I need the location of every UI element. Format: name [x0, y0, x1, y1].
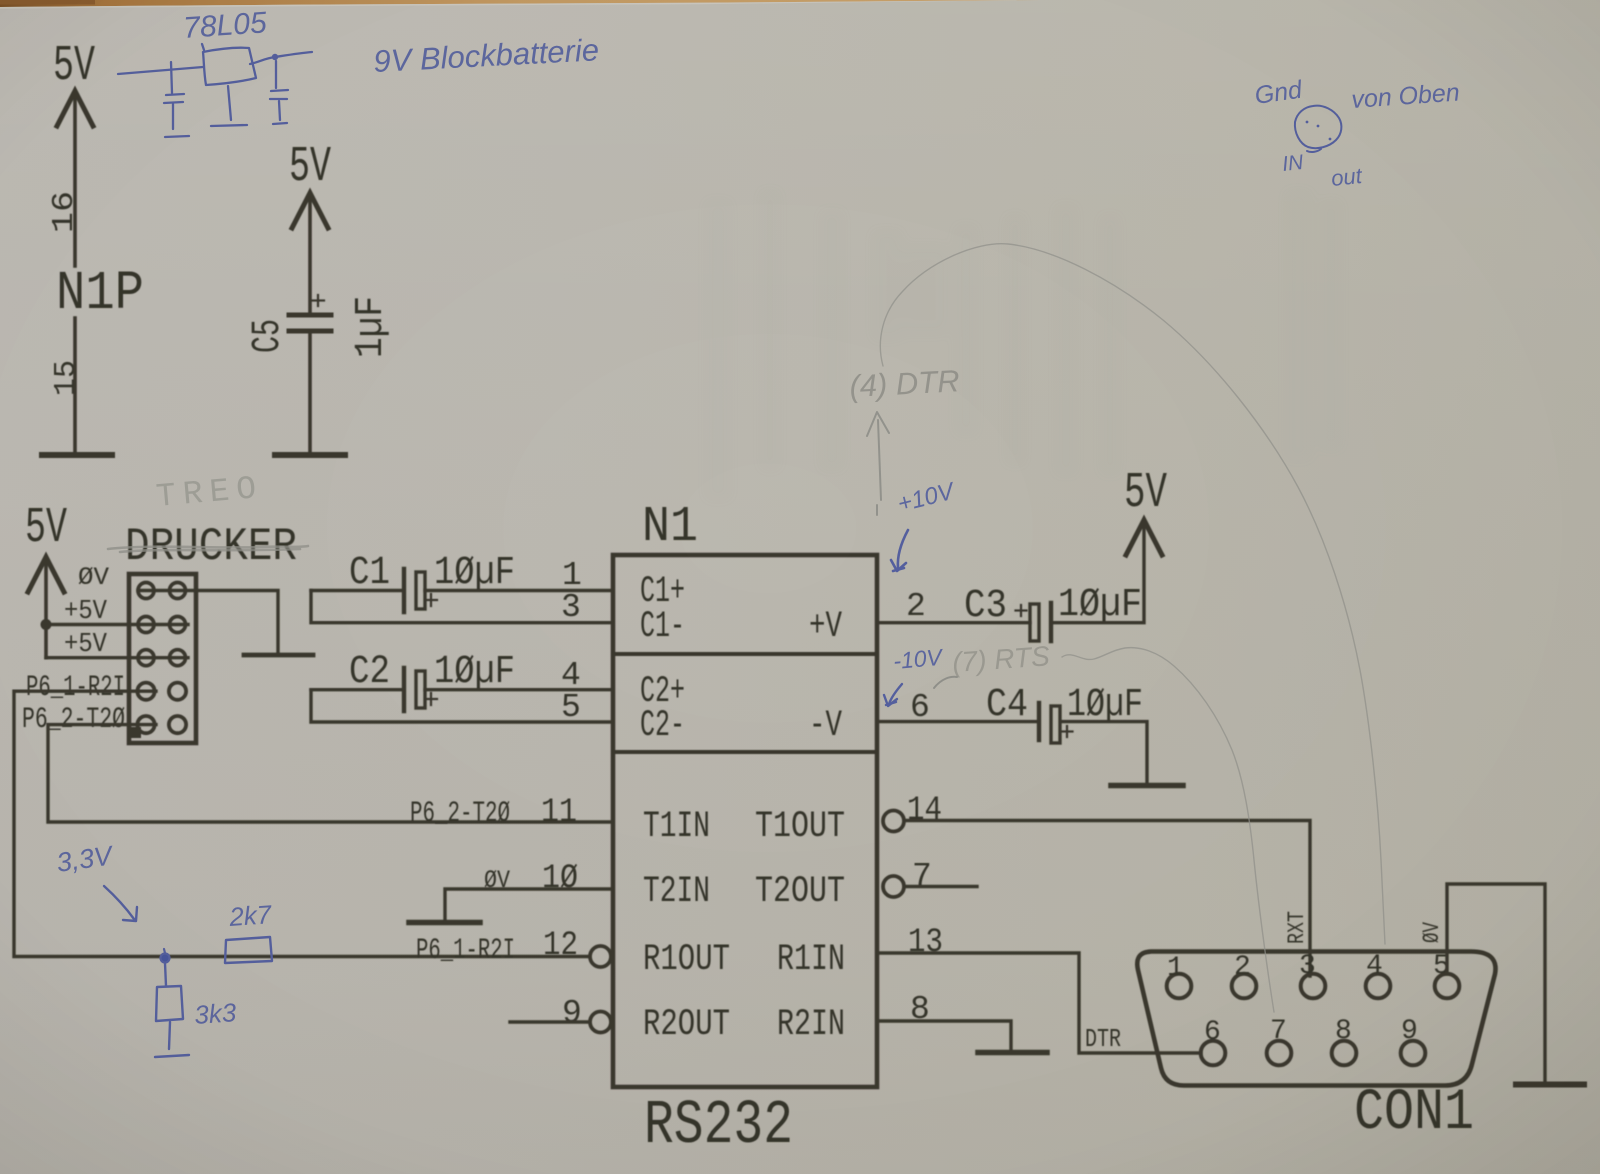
pin name R2OUT	[643, 1004, 730, 1046]
wire C5 to ground	[308, 333, 312, 453]
net label RXT	[1284, 911, 1310, 944]
value 10µF (C1)	[434, 551, 515, 596]
net label P6_2-T20 at pin11	[410, 797, 510, 831]
resistor 3k3 value (handwritten)	[193, 997, 237, 1030]
annotation IN	[1281, 151, 1305, 176]
wire 78L05 gnd pin	[211, 86, 247, 126]
wire pin2 to C3	[877, 621, 1030, 624]
pin name C1+	[640, 571, 685, 613]
pin name -V	[809, 705, 842, 747]
pin number 1	[562, 557, 582, 594]
value 10µF (C2)	[434, 650, 515, 695]
regulator 78L05 body (hand-drawn)	[202, 44, 256, 85]
CON1 pin 3	[1299, 951, 1325, 998]
connector pins row3	[138, 650, 186, 666]
net label +5V	[64, 630, 108, 660]
annotation 3,3V	[55, 840, 117, 878]
wire C3 to 5V	[1052, 524, 1144, 623]
ground (C5)	[275, 452, 345, 458]
capacitor input (hand-drawn)	[164, 62, 189, 137]
net label 0V (CON1 pin5)	[1419, 922, 1445, 943]
wire pin6 to C4	[877, 720, 1039, 723]
pin name T2IN	[643, 871, 710, 913]
CON1 pin 8	[1332, 1016, 1357, 1065]
pin number 14	[907, 792, 942, 830]
net label +5V	[64, 597, 108, 627]
wood table strip top edge	[0, 0, 1045, 9]
CON1 pin 6	[1201, 1017, 1226, 1065]
pencil arc B (RTS squiggle to CON1 pin7)	[1062, 648, 1274, 1012]
junction dot	[41, 619, 52, 630]
wire pin14 to CON1 pin3 (RXT)	[905, 821, 1310, 977]
pin name +V	[809, 606, 842, 648]
wire pin8 to ground	[877, 1021, 1011, 1050]
wire row3 +5V	[46, 656, 188, 659]
wire N1P pin15 down	[73, 318, 77, 453]
net label DTR	[1085, 1024, 1121, 1054]
pin number 7	[912, 858, 932, 895]
pin number 4	[561, 657, 581, 694]
wire pin10 to ground	[445, 889, 611, 920]
wire C2 loop pins 4,5	[311, 690, 611, 722]
pin name C2-	[640, 705, 685, 747]
pin name T1OUT	[755, 806, 845, 848]
wire pin13 to CON1 pin6 (DTR)	[877, 953, 1201, 1053]
power symbol 5V (C5)	[289, 139, 331, 311]
pin number 15	[49, 360, 84, 396]
ground (C4)	[1111, 783, 1183, 789]
wire 78L05 input	[118, 67, 203, 74]
resistor 3k3 (hand-drawn)	[156, 986, 183, 1021]
pin number 13	[908, 924, 943, 962]
pin 9 inversion circle	[590, 1012, 611, 1033]
connector DRUCKER label	[125, 521, 297, 573]
wire row1 to ground	[138, 591, 278, 653]
net label P6_1-R2I	[26, 671, 125, 705]
pin name T2OUT	[755, 871, 845, 913]
wire C1 loop pins 1,3	[311, 591, 611, 623]
HANDWRITTEN BLUE INK	[55, 6, 1461, 1057]
capacitor C1	[404, 569, 437, 612]
node N1P	[56, 262, 144, 325]
connector pins row5	[137, 716, 186, 733]
resistor 2k7 (hand-drawn)	[225, 937, 272, 963]
capacitor output (hand-drawn)	[270, 61, 288, 124]
pencil arc A (big sweep to CON1 pin4)	[880, 244, 1385, 944]
wire P6_2-T20 to N1 pin11	[48, 725, 611, 822]
pin name C1-	[640, 606, 685, 648]
capacitor C4	[1039, 703, 1073, 743]
wire 3k3 to ground	[169, 1022, 170, 1049]
annotation von oben	[1350, 78, 1460, 113]
pin number 3	[561, 589, 581, 626]
net label P6_2-T20	[22, 703, 125, 737]
power symbol 5V (DRUCKER)	[25, 500, 67, 658]
annotation (4) DTR (pencil)	[849, 363, 961, 404]
pin name T1IN	[643, 806, 710, 848]
value 10µF (C3)	[1058, 583, 1142, 628]
wire CON1 pin5 0V to ground	[1447, 884, 1545, 1082]
wire pin7 stub	[905, 885, 977, 888]
power symbol 5V (C3)	[1124, 465, 1167, 555]
power symbol 5V (N1P pin 16)	[53, 38, 95, 266]
capacitor C3 label	[964, 584, 1007, 629]
capacitor C3	[1016, 603, 1052, 641]
strikethrough over DRUCKER (pencil)	[108, 546, 308, 552]
pencil tick near pin6	[934, 677, 957, 688]
CON1 pin 7	[1267, 1016, 1292, 1065]
annotation +10V	[895, 477, 958, 517]
pin name C2+	[640, 671, 685, 713]
capacitor C4 label	[986, 683, 1028, 728]
ic N1 label	[642, 499, 698, 556]
connector pins row4	[137, 683, 186, 700]
value 10µF (C4)	[1067, 683, 1143, 728]
label C5	[246, 319, 291, 353]
ground (row1 0V)	[244, 653, 313, 658]
PENCIL ANNOTATIONS	[108, 244, 1385, 1012]
net label 0V at pin10	[484, 866, 510, 895]
annotation (7) RTS (pencil)	[951, 640, 1051, 678]
resistor 2k7 value (handwritten)	[227, 899, 273, 932]
annotation 9V Blockbatterie	[373, 32, 600, 79]
capacitor C2 label	[349, 650, 390, 695]
net label 0V	[78, 563, 109, 592]
pin name R1OUT	[643, 939, 730, 981]
ground (0V net)	[1516, 1082, 1584, 1088]
connector pins row1	[138, 583, 186, 599]
capacitor C5 polarized	[289, 295, 331, 331]
annotation Gnd	[1253, 75, 1305, 109]
annotation TREO (pencil)	[155, 470, 265, 516]
pin number 10	[542, 860, 578, 898]
arrow +10V (blue)	[891, 530, 908, 571]
capacitor C1 label	[349, 551, 390, 596]
ground (pin10)	[409, 920, 480, 926]
wire P6_1-R2I to N1 pin12	[14, 691, 588, 956]
ic N1 value RS232	[644, 1090, 793, 1161]
pin number 8	[910, 991, 930, 1028]
CON1 pin 1	[1167, 953, 1192, 998]
ground (pin8)	[978, 1050, 1047, 1056]
arrow -10V (blue)	[884, 684, 902, 706]
wire row2 +5V	[46, 623, 188, 626]
connector DRUCKER body	[129, 574, 196, 743]
pin number 11	[541, 794, 577, 832]
value 1µF	[349, 296, 394, 358]
connector pins row2	[138, 617, 186, 633]
capacitor C2	[404, 668, 437, 711]
CON1 pin 4	[1366, 951, 1391, 998]
pin 7 inversion circle	[883, 876, 904, 897]
pin name R1IN	[777, 939, 845, 981]
arrow up to (4) DTR (pencil)	[867, 412, 889, 515]
net label P6_1-R2I at pin12	[416, 934, 515, 968]
junction node (blue dot)	[161, 949, 170, 963]
pin number 16	[47, 191, 82, 233]
pin name R2IN	[777, 1004, 845, 1046]
ghost bleed-through marks	[705, 190, 1342, 500]
annotation -10V	[892, 644, 945, 674]
pin number 12	[543, 927, 578, 965]
pin 12 inversion circle	[590, 946, 611, 967]
regulator 78L05 label (handwritten)	[182, 6, 268, 45]
annotation out	[1330, 163, 1364, 191]
ground (3k3, hand-drawn)	[155, 1055, 189, 1057]
CON1 pin 5	[1433, 951, 1459, 998]
ground (N1P)	[42, 452, 112, 458]
TO-92 package sketch	[1295, 106, 1342, 152]
CON1 pin 9	[1401, 1016, 1426, 1065]
connector CON1 DB9 body	[1137, 952, 1495, 1086]
pin number 2	[906, 588, 926, 625]
wire C4 to ground	[1061, 722, 1147, 783]
pin number 5	[561, 689, 581, 726]
wire pin9 stub	[510, 1020, 589, 1023]
wire 78L05 output	[250, 52, 312, 64]
pin 14 inversion circle	[883, 811, 904, 832]
connector CON1 label	[1354, 1081, 1474, 1146]
pin number 9	[562, 995, 582, 1032]
arrow 3,3V (blue)	[104, 886, 137, 921]
CON1 pin 2	[1232, 952, 1257, 998]
pin number 6	[910, 689, 930, 726]
ic N1 body (RS232 driver)	[613, 555, 877, 1087]
wire junction to 3k3	[165, 963, 166, 986]
